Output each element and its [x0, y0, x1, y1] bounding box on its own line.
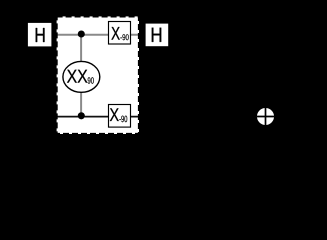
gate X-90 bottom box [109, 105, 131, 128]
wire q0 [57, 34, 139, 36]
gate XX90 ellipse [63, 61, 100, 92]
gate X-90 top box [109, 22, 131, 45]
wire vertical XX coupling [80, 34, 82, 116]
label H right [152, 28, 161, 42]
label X-90 top [111, 27, 119, 40]
dashed compile region fill [57, 16, 139, 134]
label H left [36, 28, 45, 42]
gate H right box [146, 24, 169, 47]
label X-90 bottom [110, 108, 119, 121]
control dot q0 [78, 30, 85, 37]
CNOT target cross vertical [265, 108, 267, 125]
CNOT target circle [257, 108, 274, 125]
dashed compile region border [57, 16, 139, 134]
gate H left box [28, 23, 52, 47]
CNOT target cross horizontal [257, 116, 274, 118]
label XX90 [67, 70, 87, 83]
control dot q1 [78, 112, 85, 119]
wire q1 [57, 116, 139, 118]
